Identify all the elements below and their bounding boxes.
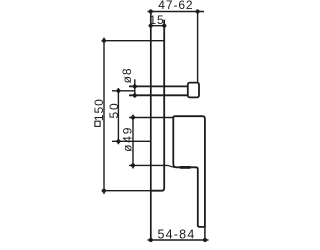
wire wall line xyxy=(150,12,152,241)
handle underside diagonal from extension xyxy=(168,165,175,167)
dimension 54-84 xyxy=(148,227,209,242)
svg-text:54-84: 54-84 xyxy=(158,227,196,241)
handle body and lever xyxy=(173,116,205,227)
svg-text:150: 150 xyxy=(92,98,106,121)
dimension 15 xyxy=(149,24,167,28)
dimension diameter-49 xyxy=(129,115,173,169)
extension line to valve box xyxy=(197,13,199,83)
supply pipe top edge xyxy=(129,85,188,87)
svg-text:15: 15 xyxy=(149,13,164,27)
dimension square-150 xyxy=(102,38,106,195)
svg-text:ø8: ø8 xyxy=(120,68,134,84)
dimension 47-62 xyxy=(148,9,205,13)
handle grip detail xyxy=(180,166,191,169)
escutcheon plate xyxy=(151,20,164,191)
svg-text:47-62: 47-62 xyxy=(158,0,193,12)
dimension diameter-8 xyxy=(133,79,137,98)
plate bottom edge / dim extension xyxy=(102,190,162,192)
dimension 50 xyxy=(112,88,151,144)
plate top edge / dim extension xyxy=(102,40,165,42)
svg-text:ø49: ø49 xyxy=(120,126,134,152)
svg-text:50: 50 xyxy=(107,102,121,119)
valve cartridge box xyxy=(188,83,199,98)
supply pipe bottom edge xyxy=(129,94,188,96)
